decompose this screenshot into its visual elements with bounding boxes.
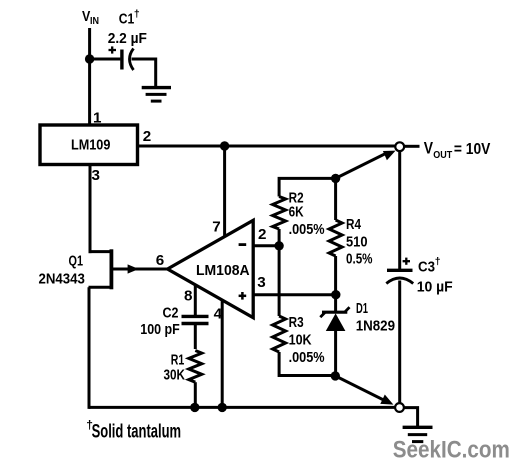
- wire VOUT down to C3: [398, 151, 401, 269]
- pin 2 label: [258, 226, 266, 243]
- svg-text:IN: IN: [90, 16, 99, 27]
- node junction VIN/C1: [85, 54, 94, 63]
- svg-text:2.2 µF: 2.2 µF: [108, 30, 147, 47]
- node junction pin7 on rail: [220, 141, 229, 150]
- wire C3 to ground node: [398, 281, 401, 404]
- resistor R1 label: [164, 351, 186, 383]
- capacitor C1 plus sign: [109, 46, 117, 53]
- op-amp U1 LM108A triangle: [168, 220, 254, 317]
- wire pin8 down: [194, 285, 197, 315]
- regulator U2 LM109 label: [71, 137, 110, 154]
- svg-text:C1: C1: [119, 11, 135, 28]
- capacitor C2 label: [140, 305, 180, 339]
- svg-text:.005%: .005%: [289, 221, 325, 238]
- node junction pin2/R2: [274, 241, 283, 250]
- svg-text:V: V: [424, 140, 433, 158]
- svg-text:10K: 10K: [289, 332, 312, 349]
- capacitor C1: [122, 49, 134, 71]
- resistor R3: [273, 316, 286, 352]
- svg-text:C3: C3: [418, 259, 435, 276]
- svg-text:Q1: Q1: [69, 253, 84, 270]
- pin 1 label LM109: [93, 110, 102, 127]
- svg-text:D1: D1: [356, 300, 368, 317]
- capacitor C2: [182, 316, 209, 323]
- wire R4 to pin3 node: [334, 256, 337, 295]
- node junction R1/bottom: [190, 403, 199, 412]
- svg-text:R4: R4: [346, 216, 361, 233]
- resistor R2 label: [289, 189, 325, 238]
- watermark SeekIC.com: [393, 437, 510, 464]
- svg-text:OUT: OUT: [433, 149, 452, 161]
- svg-text:7: 7: [212, 219, 220, 236]
- svg-text:C2: C2: [163, 305, 179, 322]
- wire R1 to bottom rail: [194, 382, 197, 407]
- svg-text:0.5%: 0.5%: [346, 251, 373, 268]
- svg-text:1: 1: [93, 110, 102, 127]
- node ground circle: [395, 403, 404, 412]
- svg-text:= 10V: = 10V: [454, 141, 491, 158]
- wire VIN to C1: [90, 58, 121, 61]
- resistor R4 label: [346, 216, 373, 268]
- wire R2 R4 top: [279, 178, 336, 196]
- resistor R3 label: [289, 314, 325, 366]
- svg-text:510: 510: [346, 234, 368, 251]
- svg-text:10 µF: 10 µF: [417, 278, 453, 295]
- node VOUT circle: [395, 142, 404, 151]
- wire diagonal arrow to ground node: [335, 376, 393, 405]
- svg-text:6: 6: [156, 252, 164, 269]
- wire VIN vertical to LM109 pin 1: [88, 28, 91, 125]
- op-amp U1 label: [196, 262, 250, 279]
- note solid tantalum: [86, 418, 181, 443]
- node VOUT label: [424, 140, 491, 161]
- node junction R4/D1/pin3: [331, 290, 340, 299]
- svg-text:.005%: .005%: [289, 349, 325, 366]
- wire op-amp pin3: [253, 293, 336, 296]
- wire op-amp pin2: [253, 244, 279, 247]
- svg-text:30K: 30K: [164, 367, 186, 384]
- wire ground stub: [404, 408, 417, 427]
- pin 7 label: [212, 219, 220, 236]
- svg-text:LM109: LM109: [71, 137, 110, 154]
- node junction R2R4 top: [331, 174, 340, 183]
- transistor Q1 label: [39, 253, 85, 288]
- wire VOUT stub: [404, 145, 419, 148]
- diode D1 zener: [320, 295, 349, 376]
- pin 6 label: [156, 252, 164, 269]
- node junction pin4/bottom: [218, 403, 227, 412]
- resistor R2: [273, 197, 286, 230]
- resistor R4: [329, 178, 342, 256]
- svg-text:†: †: [435, 256, 441, 268]
- pin 4 label: [214, 305, 223, 322]
- pin 3 label LM109: [92, 167, 100, 184]
- svg-text:100 pF: 100 pF: [140, 321, 180, 338]
- wire LM109 pin3 down: [89, 165, 92, 254]
- op-amp plus sign: [239, 292, 247, 300]
- pin 3 label: [257, 274, 265, 291]
- wire pin4 down to bottom rail: [221, 301, 224, 408]
- svg-text:SeekIC.com: SeekIC.com: [393, 437, 510, 464]
- transistor Q1 channel bar: [110, 249, 114, 289]
- svg-text:†: †: [134, 8, 140, 20]
- node junction D1/R3 bottom: [331, 371, 340, 380]
- svg-text:R3: R3: [289, 314, 304, 331]
- wire C2 to R1: [194, 324, 197, 350]
- ground main: [403, 427, 433, 441]
- capacitor C3 plus sign: [403, 258, 410, 265]
- wire C1 to ground: [132, 59, 156, 86]
- wire R3 bottom to D1 bottom: [279, 352, 335, 376]
- node VIN label: [82, 8, 99, 27]
- capacitor C3: [386, 270, 413, 283]
- svg-text:3: 3: [92, 167, 100, 184]
- pin 2 label LM109: [143, 128, 151, 145]
- wire R2 to pin2 node and down to R3: [278, 229, 281, 316]
- svg-text:8: 8: [184, 288, 192, 305]
- svg-text:2N4343: 2N4343: [39, 270, 85, 287]
- transistor Q1 drain wire: [89, 250, 112, 253]
- op-amp minus sign: [239, 243, 247, 246]
- wire diagonal arrow to output: [336, 151, 396, 179]
- transistor Q1 source wire: [89, 286, 112, 289]
- svg-text:2: 2: [258, 226, 266, 243]
- pin 8 label: [184, 288, 192, 305]
- wire LM109 pin2 output rail: [138, 145, 396, 148]
- svg-text:3: 3: [257, 274, 265, 291]
- svg-text:2: 2: [143, 128, 151, 145]
- resistor R1: [189, 351, 202, 383]
- svg-text:LM108A: LM108A: [196, 262, 250, 279]
- svg-text:Solid tantalum: Solid tantalum: [92, 422, 182, 443]
- transistor Q1 gate wire with arrow: [112, 264, 168, 273]
- wire Q1 source to bottom rail: [88, 287, 91, 409]
- ground for C1: [142, 88, 171, 102]
- regulator U2 LM109 box: [40, 125, 138, 165]
- svg-text:1N829: 1N829: [356, 318, 395, 335]
- diode D1 label: [356, 300, 395, 334]
- wire bottom rail: [89, 406, 395, 409]
- wire pin 7 vertical: [223, 146, 226, 238]
- capacitor C3 label: [417, 256, 453, 296]
- capacitor C1 label: [108, 8, 147, 47]
- svg-text:6K: 6K: [289, 203, 304, 220]
